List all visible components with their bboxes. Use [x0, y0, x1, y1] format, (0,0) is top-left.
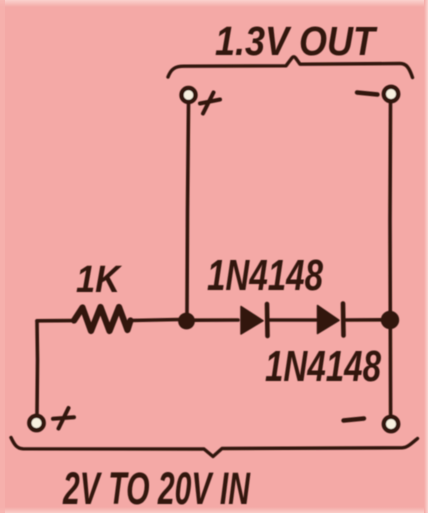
brace for 1.3V OUT: [168, 57, 413, 78]
diode D2 (1N4148) triangle: [318, 306, 340, 334]
wire: bottom-left horizontal from corner to resistor R1: [37, 319, 75, 323]
wire: node A to diode D1: [194, 318, 238, 322]
svg-text:2V TO 20V IN: 2V TO 20V IN: [62, 463, 251, 513]
wire: diode D2 to node B: [346, 318, 382, 322]
svg-text:1K: 1K: [76, 259, 122, 301]
wire: diode D1 to diode D2: [269, 318, 316, 322]
diode D1 (1N4148) triangle: [241, 307, 263, 335]
node B junction dot: [381, 311, 399, 329]
plus sign (OUT+): [200, 93, 220, 114]
terminal IN- (bottom right): [384, 417, 398, 431]
svg-text:1N4148: 1N4148: [265, 342, 381, 391]
diode D2 cathode bar: [341, 304, 346, 336]
brace for 2V TO 20V IN: [11, 438, 418, 457]
node A junction dot: [178, 313, 195, 330]
terminal OUT+ (top left): [182, 88, 196, 102]
wire: right vertical from OUT- terminal through node B to IN- terminal: [388, 104, 392, 415]
resistor R1 (1K) zigzag: [74, 307, 131, 331]
minus sign (IN-): [344, 419, 365, 421]
plus sign (IN+): [53, 408, 74, 429]
terminal OUT- (top right): [384, 87, 398, 101]
svg-text:1.3V OUT: 1.3V OUT: [215, 18, 378, 64]
wire: left vertical from bottom-left terminal up to corner: [35, 321, 39, 414]
wire: vertical from OUT+ terminal down to node A: [187, 105, 189, 314]
minus sign (OUT-): [357, 93, 378, 95]
terminal IN+ (bottom left): [29, 416, 43, 430]
svg-text:1N4148: 1N4148: [207, 251, 323, 300]
wire: resistor to node A: [131, 320, 181, 321]
diode D1 cathode bar: [265, 304, 270, 336]
